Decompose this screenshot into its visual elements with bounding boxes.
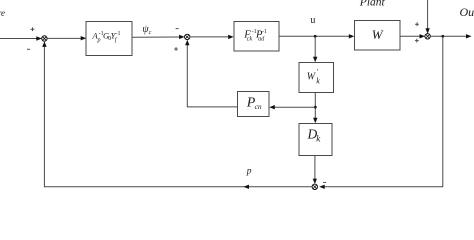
wire Dk down into summing junction S4 xyxy=(314,156,316,181)
plus sign at S2 xyxy=(174,47,178,51)
svg-text:Plant: Plant xyxy=(359,0,386,9)
wire block A to summing junction S2 xyxy=(132,36,180,38)
svg-text:ck: ck xyxy=(247,36,253,42)
wire input to summing junction S1 xyxy=(0,38,37,40)
minus sign at S1 xyxy=(27,48,30,51)
wire block W to summing junction S3 xyxy=(400,35,421,37)
svg-text:W: W xyxy=(372,27,384,42)
svg-text:p: p xyxy=(97,37,101,43)
arrowhead into S1 from below xyxy=(42,41,46,47)
svg-text:p: p xyxy=(246,166,252,176)
plus sign lower at S3 xyxy=(415,39,419,43)
node output takeoff dot xyxy=(441,35,444,38)
wire S3 to output with takeoff node xyxy=(430,35,467,37)
node u takeoff dot xyxy=(314,35,317,38)
summing junction S2 xyxy=(185,34,190,39)
block Dk xyxy=(299,124,332,156)
svg-text:c: c xyxy=(149,30,152,36)
svg-text:re: re xyxy=(0,8,5,18)
block F (F_ck^-1 P_ad^-1) xyxy=(234,22,279,52)
block W (plant) xyxy=(355,21,401,51)
wire block F to block W with u takeoff node xyxy=(279,35,350,37)
plus sign at S1 xyxy=(31,27,35,31)
svg-text:u: u xyxy=(310,15,315,26)
summing junction S4 xyxy=(312,184,317,189)
svg-text:Out: Out xyxy=(460,5,474,19)
svg-text:cn: cn xyxy=(255,102,262,111)
minus sign at S4 xyxy=(323,181,326,184)
wire disturbance input from top into S3 xyxy=(427,0,429,30)
summing junction S3 xyxy=(425,34,430,39)
wire Wk down to block Dk with branch node xyxy=(314,93,316,120)
wire branch to block Pcn xyxy=(273,106,315,108)
wire Pcn output left and up into S2 xyxy=(187,44,237,107)
svg-text:k: k xyxy=(316,76,320,85)
node branch dot to Pcn xyxy=(314,106,317,109)
summing junction S1 xyxy=(42,36,47,41)
svg-text:ad: ad xyxy=(258,36,265,42)
wire u branch down to block Wk xyxy=(314,36,316,58)
wire S4 output left along bottom and up into S1 xyxy=(44,44,312,187)
wire S2 to block F xyxy=(190,36,229,38)
block Wk (W'_k) xyxy=(299,63,334,93)
svg-text:-1: -1 xyxy=(262,29,267,35)
block Pcn xyxy=(238,92,270,117)
arrowhead mid bottom wire xyxy=(244,185,250,189)
svg-text:-1: -1 xyxy=(116,31,121,37)
wire S1 to block A xyxy=(47,37,81,39)
plus sign upper at S3 xyxy=(415,22,419,26)
wire output takeoff down and left into S4 xyxy=(324,36,443,187)
block A (A_p^-1 G_0 Y_f^-1) xyxy=(86,22,132,56)
minus sign at S2 xyxy=(176,27,179,30)
